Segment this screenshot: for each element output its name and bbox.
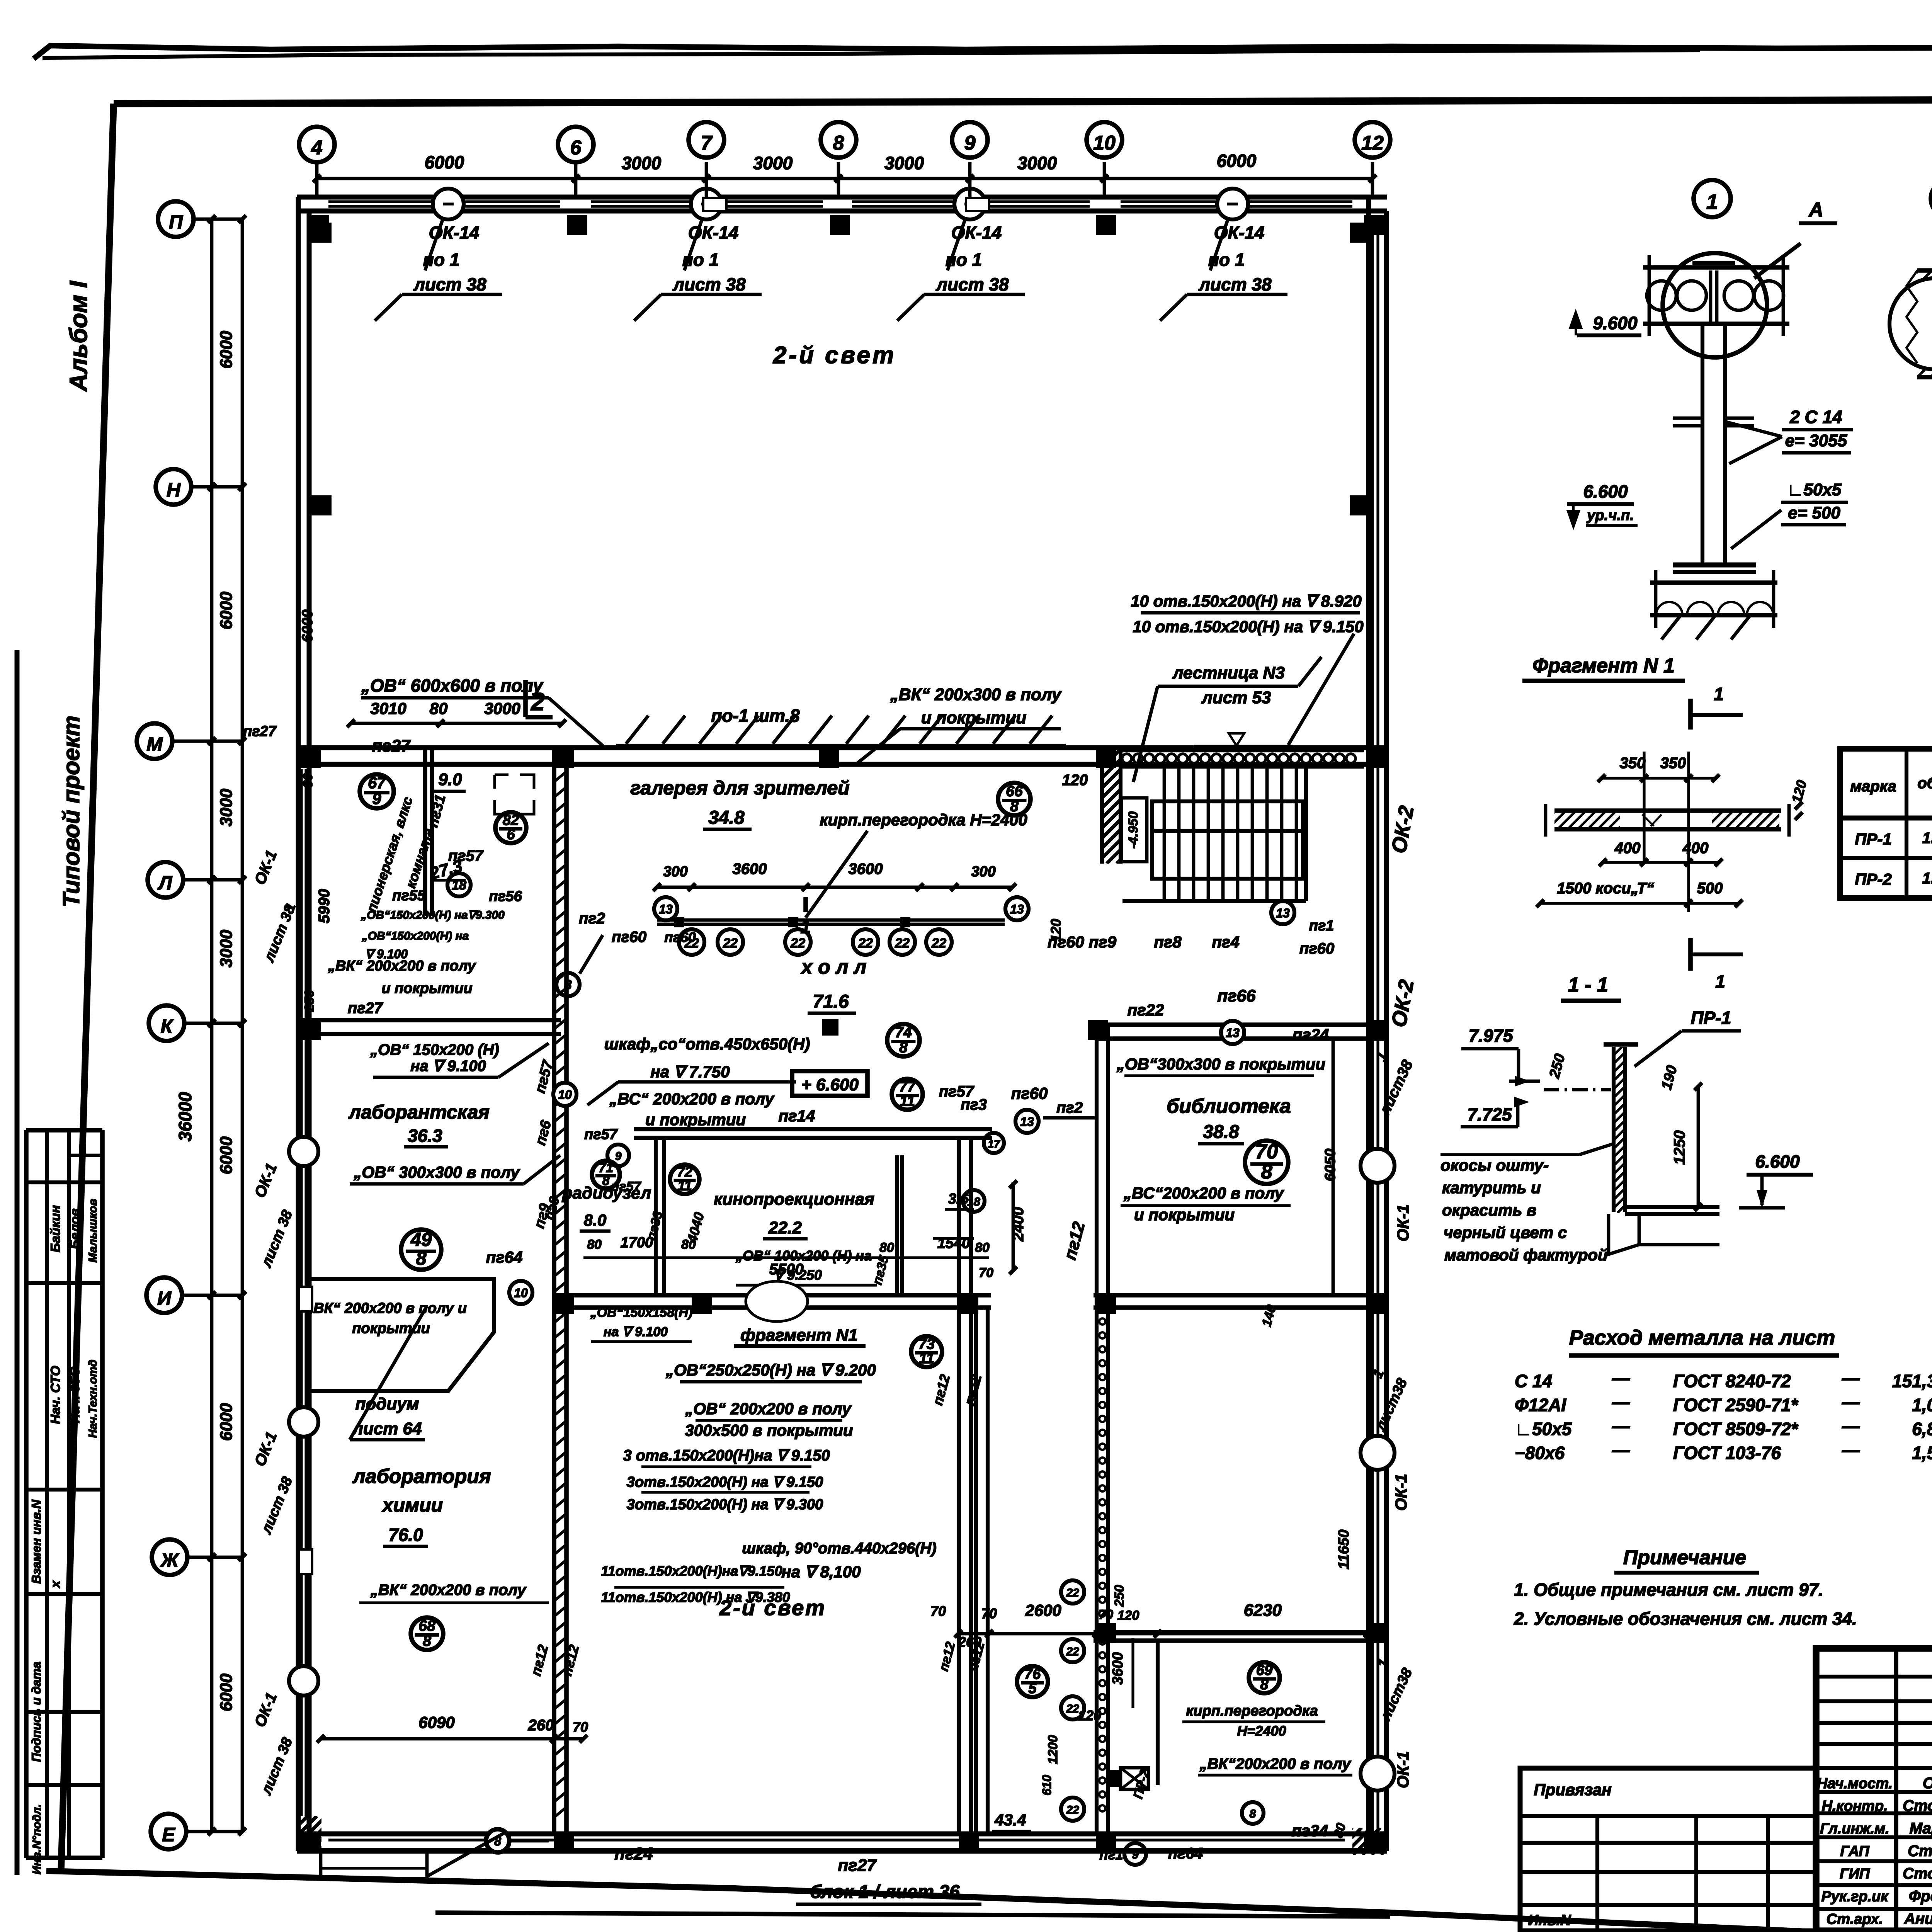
svg-text:3600: 3600 bbox=[733, 861, 767, 878]
svg-text:3.6: 3.6 bbox=[948, 1191, 969, 1207]
svg-text:300: 300 bbox=[971, 864, 995, 880]
svg-text:Нач. СТО: Нач. СТО bbox=[48, 1366, 63, 1424]
svg-text:76: 76 bbox=[1024, 1666, 1041, 1682]
svg-text:22: 22 bbox=[790, 936, 805, 951]
svg-text:„ОВ“ 200х200 в полу: „ОВ“ 200х200 в полу bbox=[685, 1400, 852, 1418]
svg-text:71: 71 bbox=[599, 1161, 613, 1175]
svg-text:пг1: пг1 bbox=[1099, 1847, 1123, 1862]
svg-text:„ОВ“ 600х600 в полу: „ОВ“ 600х600 в полу bbox=[361, 675, 544, 696]
svg-text:обозначение: обозначение bbox=[1917, 775, 1932, 792]
svg-text:Фрагмент N 1: Фрагмент N 1 bbox=[1532, 655, 1675, 677]
svg-text:марка: марка bbox=[1850, 778, 1896, 795]
svg-text:М: М bbox=[146, 733, 163, 755]
svg-text:шкаф„со“отв.450х650(Н): шкаф„со“отв.450х650(Н) bbox=[604, 1035, 810, 1053]
svg-text:22: 22 bbox=[1066, 1702, 1079, 1715]
svg-text:С 14: С 14 bbox=[1515, 1371, 1552, 1391]
svg-text:70: 70 bbox=[1255, 1140, 1278, 1163]
svg-text:9: 9 bbox=[964, 132, 976, 155]
svg-text:пг24: пг24 bbox=[1293, 1026, 1329, 1044]
svg-text:3000: 3000 bbox=[484, 699, 520, 718]
svg-text:Орлов: Орлов bbox=[1923, 1775, 1932, 1792]
svg-text:6090: 6090 bbox=[418, 1713, 454, 1731]
svg-text:22: 22 bbox=[1066, 1587, 1079, 1599]
svg-text:3000: 3000 bbox=[217, 930, 236, 968]
svg-text:—: — bbox=[1842, 1440, 1860, 1460]
svg-text:Маргулец: Маргулец bbox=[1910, 1820, 1932, 1837]
svg-text:6000: 6000 bbox=[217, 1136, 236, 1174]
svg-text:„ОВ“150х158(Н): „ОВ“150х158(Н) bbox=[590, 1305, 693, 1320]
svg-text:—: — bbox=[1842, 1368, 1860, 1388]
svg-text:черный цвет с: черный цвет с bbox=[1444, 1223, 1567, 1242]
svg-text:Нач.мост.: Нач.мост. bbox=[1817, 1776, 1893, 1792]
svg-text:катурить и: катурить и bbox=[1442, 1179, 1541, 1197]
svg-text:400: 400 bbox=[1614, 840, 1641, 857]
svg-text:∟50х5: ∟50х5 bbox=[1515, 1419, 1572, 1439]
svg-text:—: — bbox=[1842, 1416, 1860, 1436]
svg-text:Ф12АI: Ф12АI bbox=[1515, 1395, 1566, 1415]
svg-text:9.0: 9.0 bbox=[438, 770, 462, 789]
svg-text:6000: 6000 bbox=[299, 610, 316, 643]
svg-text:Столярова: Столярова bbox=[1903, 1798, 1932, 1815]
svg-text:х о л л: х о л л bbox=[800, 956, 867, 978]
svg-text:3000: 3000 bbox=[753, 153, 793, 173]
svg-text:кинопроекционная: кинопроекционная bbox=[714, 1190, 874, 1209]
svg-text:К: К bbox=[161, 1015, 174, 1037]
svg-text:Инв.N: Инв.N bbox=[1528, 1912, 1571, 1929]
svg-text:пг60: пг60 bbox=[1299, 940, 1334, 957]
svg-text:350: 350 bbox=[1620, 755, 1646, 772]
svg-text:13: 13 bbox=[1020, 1115, 1034, 1129]
svg-text:22: 22 bbox=[858, 936, 873, 951]
svg-text:Альбом I: Альбом I bbox=[65, 281, 92, 392]
svg-text:2600: 2600 bbox=[1025, 1601, 1061, 1619]
svg-text:пг56: пг56 bbox=[489, 888, 522, 905]
svg-text:Н.контр.: Н.контр. bbox=[1822, 1798, 1888, 1815]
svg-text:5: 5 bbox=[1028, 1680, 1037, 1697]
svg-text:и покрытии: и покрытии bbox=[645, 1111, 746, 1129]
svg-text:6230: 6230 bbox=[1244, 1601, 1282, 1620]
svg-text:36.3: 36.3 bbox=[408, 1126, 442, 1146]
svg-text:66: 66 bbox=[1006, 783, 1023, 799]
svg-text:70: 70 bbox=[573, 1719, 588, 1735]
svg-text:ГОСТ 8509-72*: ГОСТ 8509-72* bbox=[1673, 1419, 1799, 1439]
svg-text:И: И bbox=[157, 1287, 172, 1309]
svg-text:6.600: 6.600 bbox=[1755, 1151, 1800, 1172]
svg-text:лист 53: лист 53 bbox=[1201, 688, 1271, 707]
svg-text:ПР-1: ПР-1 bbox=[1855, 830, 1892, 848]
svg-text:Рук.гр.ик: Рук.гр.ик bbox=[1821, 1889, 1889, 1905]
svg-text:5500: 5500 bbox=[769, 1261, 804, 1278]
svg-text:Степанов: Степанов bbox=[1908, 1843, 1932, 1860]
svg-text:-4.950: -4.950 bbox=[1126, 811, 1141, 849]
svg-text:1: 1 bbox=[1706, 190, 1718, 214]
svg-text:300: 300 bbox=[663, 864, 687, 880]
svg-text:Ж: Ж bbox=[160, 1549, 180, 1571]
svg-text:76.0: 76.0 bbox=[388, 1525, 423, 1545]
svg-text:ПР-2: ПР-2 bbox=[1855, 870, 1892, 888]
svg-text:Л: Л bbox=[158, 872, 173, 894]
svg-text:2: 2 bbox=[531, 688, 545, 716]
svg-text:ГОСТ 8240-72: ГОСТ 8240-72 bbox=[1673, 1371, 1791, 1391]
svg-text:2 С 14: 2 С 14 bbox=[1789, 407, 1842, 427]
svg-text:пг60: пг60 bbox=[664, 929, 696, 945]
svg-text:6000: 6000 bbox=[217, 331, 236, 369]
svg-text:ГОСТ 103-76: ГОСТ 103-76 bbox=[1673, 1443, 1781, 1463]
svg-text:38.8: 38.8 bbox=[1203, 1122, 1239, 1142]
svg-text:1,0кг: 1,0кг bbox=[1912, 1395, 1932, 1415]
svg-text:лаборантская: лаборантская bbox=[348, 1101, 490, 1123]
svg-text:окосы ошту-: окосы ошту- bbox=[1440, 1156, 1549, 1174]
svg-text:13: 13 bbox=[1276, 906, 1290, 920]
svg-text:3000: 3000 bbox=[622, 153, 662, 173]
svg-text:фрагмент N1: фрагмент N1 bbox=[740, 1326, 858, 1345]
svg-text:5990: 5990 bbox=[316, 889, 333, 923]
svg-text:П: П bbox=[169, 211, 183, 233]
svg-text:6000: 6000 bbox=[217, 592, 236, 629]
svg-text:„ВК“ 200х200 в полу: „ВК“ 200х200 в полу bbox=[370, 1582, 527, 1599]
svg-text:10 отв.150х200(Н) на ∇ 8.920: 10 отв.150х200(Н) на ∇ 8.920 bbox=[1131, 592, 1361, 610]
svg-text:−80х6: −80х6 bbox=[1515, 1443, 1565, 1463]
svg-text:11отв.150х200(Н)на∇9.150: 11отв.150х200(Н)на∇9.150 bbox=[601, 1563, 782, 1579]
svg-text:Подпись и дата: Подпись и дата bbox=[29, 1662, 43, 1762]
svg-text:пг2: пг2 bbox=[579, 910, 605, 927]
svg-text:7.975: 7.975 bbox=[1468, 1026, 1514, 1046]
svg-text:610: 610 bbox=[1040, 1775, 1054, 1796]
svg-text:„ВК“ 200х200 в полу: „ВК“ 200х200 в полу bbox=[328, 958, 476, 974]
svg-text:1: 1 bbox=[1714, 684, 1724, 704]
svg-text:по-1 шт.8: по-1 шт.8 bbox=[711, 706, 800, 726]
svg-text:1: 1 bbox=[801, 917, 811, 937]
svg-text:10: 10 bbox=[558, 1088, 572, 1102]
svg-text:Привязан: Привязан bbox=[1534, 1781, 1611, 1799]
svg-text:36000: 36000 bbox=[175, 1092, 195, 1141]
svg-text:пг2: пг2 bbox=[1056, 1099, 1083, 1116]
svg-text:18: 18 bbox=[967, 1196, 980, 1208]
svg-text:ур.ч.п.: ур.ч.п. bbox=[1586, 507, 1634, 524]
svg-text:Белов: Белов bbox=[68, 1208, 82, 1249]
svg-text:12: 12 bbox=[1361, 132, 1384, 155]
svg-text:7.725: 7.725 bbox=[1467, 1104, 1512, 1124]
svg-text:библиотека: библиотека bbox=[1167, 1095, 1291, 1117]
svg-text:11650: 11650 bbox=[1336, 1530, 1352, 1570]
svg-text:матовой фактурой: матовой фактурой bbox=[1444, 1246, 1608, 1264]
svg-text:9: 9 bbox=[1132, 1849, 1139, 1861]
svg-text:6: 6 bbox=[570, 137, 582, 159]
svg-text:3отв.150х200(Н) на ∇ 9.300: 3отв.150х200(Н) на ∇ 9.300 bbox=[627, 1497, 823, 1513]
svg-text:6050: 6050 bbox=[1322, 1149, 1338, 1182]
svg-text:„ОВ“150х200(Н) на: „ОВ“150х200(Н) на bbox=[362, 930, 469, 942]
svg-text:80: 80 bbox=[879, 1240, 894, 1255]
svg-text:1.138-10 в.1: 1.138-10 в.1 bbox=[1922, 870, 1932, 887]
svg-text:Нач. 9ТО: Нач. 9ТО bbox=[68, 1367, 82, 1423]
svg-text:17: 17 bbox=[988, 1138, 1000, 1150]
svg-text:пг27: пг27 bbox=[838, 1856, 877, 1875]
svg-text:80: 80 bbox=[301, 773, 315, 788]
svg-text:Столярова: Столярова bbox=[1903, 1865, 1932, 1882]
svg-text:6.600: 6.600 bbox=[1583, 481, 1628, 502]
svg-text:34.8: 34.8 bbox=[708, 808, 745, 828]
svg-text:x: x bbox=[48, 1580, 63, 1588]
svg-text:шкаф, 90°отв.440х296(Н): шкаф, 90°отв.440х296(Н) bbox=[742, 1540, 936, 1557]
svg-text:8: 8 bbox=[1250, 1808, 1256, 1820]
svg-text:ГИП: ГИП bbox=[1840, 1866, 1870, 1882]
svg-text:лестница N3: лестница N3 bbox=[1172, 663, 1285, 682]
svg-text:3000: 3000 bbox=[1017, 153, 1057, 173]
svg-text:и покрытии: и покрытии bbox=[381, 980, 472, 997]
svg-text:„ОВ“150х200(Н) на∇9.300: „ОВ“150х200(Н) на∇9.300 bbox=[361, 909, 505, 922]
svg-text:73: 73 bbox=[918, 1336, 935, 1352]
svg-text:3000: 3000 bbox=[217, 789, 236, 827]
svg-text:400: 400 bbox=[1682, 840, 1709, 857]
svg-text:—: — bbox=[1612, 1416, 1630, 1436]
svg-text:пг4: пг4 bbox=[1212, 933, 1239, 951]
svg-text:6000: 6000 bbox=[425, 152, 464, 172]
svg-text:9.600: 9.600 bbox=[1593, 313, 1638, 333]
svg-text:1200: 1200 bbox=[1046, 1735, 1060, 1764]
svg-text:300х500 в покрытии: 300х500 в покрытии bbox=[685, 1421, 853, 1439]
svg-text:1700: 1700 bbox=[621, 1235, 653, 1251]
svg-text:74: 74 bbox=[895, 1024, 912, 1041]
svg-text:43.4: 43.4 bbox=[994, 1811, 1026, 1829]
svg-text:ОК-1: ОК-1 bbox=[1392, 1474, 1410, 1511]
svg-text:260: 260 bbox=[958, 1634, 981, 1650]
svg-text:49: 49 bbox=[410, 1230, 432, 1250]
svg-text:70: 70 bbox=[930, 1603, 946, 1619]
svg-text:е= 500: е= 500 bbox=[1788, 503, 1840, 522]
svg-text:„ВК“200х200 в полу: „ВК“200х200 в полу bbox=[1199, 1755, 1351, 1772]
svg-text:пг3: пг3 bbox=[961, 1096, 987, 1113]
svg-text:Расход металла на лист: Расход металла на лист bbox=[1569, 1326, 1835, 1349]
svg-text:9: 9 bbox=[615, 1150, 622, 1163]
svg-text:22: 22 bbox=[895, 936, 910, 951]
svg-text:8: 8 bbox=[833, 132, 844, 155]
svg-text:пг24: пг24 bbox=[614, 1844, 653, 1863]
svg-text:3000: 3000 bbox=[884, 153, 924, 173]
svg-text:120: 120 bbox=[1117, 1608, 1139, 1623]
svg-text:1500 коси„Т“: 1500 коси„Т“ bbox=[1557, 880, 1654, 897]
svg-text:22.2: 22.2 bbox=[768, 1218, 802, 1237]
svg-text:6000: 6000 bbox=[1217, 151, 1257, 171]
svg-text:и покрытии: и покрытии bbox=[1134, 1206, 1235, 1224]
svg-text:8: 8 bbox=[1261, 1160, 1272, 1183]
svg-text:250: 250 bbox=[1112, 1585, 1127, 1607]
svg-text:Типовой проект: Типовой проект bbox=[58, 716, 84, 907]
svg-text:4: 4 bbox=[311, 137, 323, 159]
svg-text:11: 11 bbox=[677, 1178, 692, 1194]
svg-text:Е: Е bbox=[162, 1824, 175, 1845]
svg-text:8.0: 8.0 bbox=[584, 1211, 606, 1229]
svg-text:блок 1 / лист 36: блок 1 / лист 36 bbox=[810, 1882, 960, 1902]
svg-text:пг64: пг64 bbox=[486, 1248, 523, 1266]
svg-text:8: 8 bbox=[565, 978, 572, 992]
svg-text:пг60: пг60 bbox=[612, 929, 646, 946]
svg-text:6,8кг: 6,8кг bbox=[1912, 1419, 1932, 1439]
svg-text:260: 260 bbox=[528, 1717, 554, 1734]
svg-text:2-й свет: 2-й свет bbox=[773, 342, 896, 369]
svg-text:∟50х5: ∟50х5 bbox=[1787, 480, 1842, 499]
svg-text:11: 11 bbox=[919, 1350, 934, 1367]
svg-text:пг8: пг8 bbox=[1154, 933, 1182, 951]
svg-text:8: 8 bbox=[899, 1039, 908, 1056]
svg-text:пг27: пг27 bbox=[243, 723, 277, 740]
svg-text:9: 9 bbox=[372, 790, 381, 808]
svg-text:ГАП: ГАП bbox=[1840, 1844, 1869, 1860]
svg-text:ГОСТ 2590-71*: ГОСТ 2590-71* bbox=[1673, 1395, 1799, 1415]
svg-text:22: 22 bbox=[931, 936, 946, 951]
svg-text:Н=2400: Н=2400 bbox=[1237, 1723, 1286, 1739]
svg-text:80: 80 bbox=[430, 699, 448, 718]
svg-text:77: 77 bbox=[899, 1079, 916, 1095]
svg-text:151,3кг: 151,3кг bbox=[1892, 1371, 1932, 1391]
svg-text:„ВС“200х200 в полу: „ВС“200х200 в полу bbox=[1123, 1184, 1285, 1202]
svg-text:пг22: пг22 bbox=[1128, 1001, 1164, 1019]
svg-text:пг57: пг57 bbox=[584, 1126, 618, 1143]
svg-text:пг66: пг66 bbox=[1217, 986, 1256, 1005]
svg-text:лист 38: лист 38 bbox=[935, 274, 1009, 294]
svg-text:пг27: пг27 bbox=[372, 736, 411, 755]
svg-text:„ВК“ 200х200 в полу и: „ВК“ 200х200 в полу и bbox=[306, 1300, 467, 1316]
svg-text:покрытии: покрытии bbox=[352, 1320, 430, 1337]
svg-text:на ∇ 7.750: на ∇ 7.750 bbox=[650, 1063, 730, 1081]
svg-text:пг55: пг55 bbox=[392, 888, 426, 904]
svg-text:68: 68 bbox=[418, 1617, 435, 1634]
svg-text:2. Условные обозначения см.: 2. Условные обозначения см. лист 34. bbox=[1514, 1609, 1857, 1629]
svg-text:—: — bbox=[1612, 1440, 1630, 1460]
svg-text:6: 6 bbox=[507, 827, 515, 843]
svg-text:8: 8 bbox=[1010, 798, 1019, 815]
svg-text:кирп.перегородка Н=2400: кирп.перегородка Н=2400 bbox=[820, 811, 1027, 829]
svg-text:Байкин: Байкин bbox=[48, 1205, 63, 1252]
svg-text:6000: 6000 bbox=[217, 1673, 236, 1711]
svg-text:—: — bbox=[1842, 1392, 1860, 1412]
svg-text:80: 80 bbox=[975, 1240, 990, 1255]
svg-text:Малышков: Малышков bbox=[87, 1199, 99, 1262]
svg-text:67: 67 bbox=[368, 774, 386, 792]
svg-text:82: 82 bbox=[503, 812, 519, 828]
svg-text:8: 8 bbox=[423, 1633, 431, 1650]
svg-text:ПР-1: ПР-1 bbox=[1691, 1008, 1731, 1028]
svg-text:13: 13 bbox=[1226, 1026, 1240, 1040]
svg-text:1.138-10 в.1: 1.138-10 в.1 bbox=[1922, 830, 1932, 847]
svg-text:ОК-1: ОК-1 bbox=[1394, 1204, 1412, 1242]
svg-text:70: 70 bbox=[979, 1265, 993, 1280]
svg-text:Нач.Техн.отд: Нач.Техн.отд bbox=[87, 1360, 99, 1438]
svg-text:22: 22 bbox=[1066, 1645, 1079, 1658]
svg-text:ОК-1: ОК-1 bbox=[1394, 1751, 1412, 1788]
svg-text:на ∇ 9.100: на ∇ 9.100 bbox=[604, 1325, 668, 1339]
svg-text:120: 120 bbox=[1062, 772, 1088, 789]
svg-text:А: А bbox=[1808, 199, 1823, 221]
svg-text:Н: Н bbox=[167, 479, 181, 501]
svg-text:8: 8 bbox=[602, 1173, 610, 1188]
svg-text:1 - 1: 1 - 1 bbox=[1568, 974, 1608, 996]
svg-text:на ∇ 9.100: на ∇ 9.100 bbox=[410, 1058, 486, 1075]
svg-text:кирп.перегородка: кирп.перегородка bbox=[1186, 1703, 1318, 1719]
svg-text:„ОВ“ 150х200 (Н): „ОВ“ 150х200 (Н) bbox=[370, 1041, 499, 1058]
svg-text:8: 8 bbox=[416, 1248, 427, 1269]
svg-text:8: 8 bbox=[1260, 1677, 1269, 1693]
svg-text:10: 10 bbox=[1093, 132, 1116, 155]
svg-text:3600: 3600 bbox=[1110, 1652, 1126, 1685]
svg-text:10 отв.150х200(Н) на ∇ 9.150: 10 отв.150х200(Н) на ∇ 9.150 bbox=[1133, 617, 1363, 636]
svg-text:1: 1 bbox=[1715, 971, 1725, 992]
svg-text:пг64: пг64 bbox=[1168, 1845, 1203, 1862]
svg-text:13: 13 bbox=[659, 902, 673, 916]
svg-text:22: 22 bbox=[723, 936, 738, 951]
svg-text:Примечание: Примечание bbox=[1623, 1546, 1746, 1569]
svg-text:Фроженко: Фроженко bbox=[1909, 1888, 1932, 1905]
svg-text:—: — bbox=[1612, 1368, 1630, 1388]
svg-text:Взамен инв.N: Взамен инв.N bbox=[29, 1500, 43, 1584]
svg-text:Анисимова: Анисимова bbox=[1904, 1910, 1932, 1927]
svg-text:70: 70 bbox=[981, 1605, 997, 1621]
svg-text:3600: 3600 bbox=[849, 861, 883, 878]
svg-text:22: 22 bbox=[1066, 1804, 1079, 1816]
svg-text:1. Общие примечания см. лис: 1. Общие примечания см. лист 97. bbox=[1514, 1580, 1823, 1600]
svg-text:+ 6.600: + 6.600 bbox=[801, 1075, 859, 1094]
svg-text:пг1: пг1 bbox=[1309, 918, 1334, 934]
svg-text:лаборатория: лаборатория bbox=[352, 1465, 491, 1488]
svg-text:120: 120 bbox=[1078, 1708, 1101, 1723]
svg-text:13: 13 bbox=[1010, 902, 1024, 916]
svg-text:пг14: пг14 bbox=[779, 1107, 815, 1125]
svg-text:6000: 6000 bbox=[217, 1403, 236, 1441]
svg-text:на ∇ 8,100: на ∇ 8,100 bbox=[781, 1563, 861, 1581]
svg-text:Ст.арх.: Ст.арх. bbox=[1827, 1911, 1883, 1927]
svg-text:химии: химии bbox=[381, 1494, 443, 1516]
svg-text:„ОВ“250х250(Н) на ∇ 9.200: „ОВ“250х250(Н) на ∇ 9.200 bbox=[665, 1361, 876, 1379]
svg-text:„ВС“ 200х200 в полу: „ВС“ 200х200 в полу bbox=[609, 1090, 775, 1108]
svg-text:Инв.N°подл.: Инв.N°подл. bbox=[31, 1804, 43, 1874]
svg-text:3отв.150х200(Н) на ∇ 9.150: 3отв.150х200(Н) на ∇ 9.150 bbox=[627, 1474, 823, 1490]
svg-text:„ОВ“ 100х200 (Н) на: „ОВ“ 100х200 (Н) на bbox=[735, 1248, 872, 1264]
svg-text:лист 38: лист 38 bbox=[672, 274, 746, 294]
svg-text:3 отв.150х200(Н)на ∇ 9.150: 3 отв.150х200(Н)на ∇ 9.150 bbox=[623, 1447, 830, 1464]
svg-text:„ОВ“300х300 в покрытии: „ОВ“300х300 в покрытии bbox=[1116, 1055, 1325, 1073]
svg-text:350: 350 bbox=[1660, 755, 1686, 772]
svg-text:лист 38: лист 38 bbox=[1198, 274, 1272, 294]
svg-text:1250: 1250 bbox=[1671, 1131, 1688, 1165]
svg-text:3010: 3010 bbox=[370, 699, 406, 718]
svg-text:лист 64: лист 64 bbox=[352, 1419, 422, 1438]
svg-text:80: 80 bbox=[587, 1237, 602, 1252]
svg-text:69: 69 bbox=[1256, 1662, 1272, 1679]
svg-text:лист 38: лист 38 bbox=[413, 274, 486, 294]
svg-text:пг34: пг34 bbox=[1292, 1821, 1328, 1840]
svg-text:80: 80 bbox=[681, 1237, 696, 1252]
svg-text:е= 3055: е= 3055 bbox=[1785, 431, 1847, 450]
svg-text:500: 500 bbox=[1697, 880, 1723, 897]
svg-text:и покрытии: и покрытии bbox=[921, 708, 1027, 727]
svg-text:галерея для зрителей: галерея для зрителей bbox=[630, 777, 849, 799]
svg-text:—: — bbox=[1612, 1392, 1630, 1412]
svg-text:Гл.инж.м.: Гл.инж.м. bbox=[1820, 1821, 1889, 1837]
svg-text:2-й свет: 2-й свет bbox=[719, 1595, 826, 1620]
svg-text:1,5кг: 1,5кг bbox=[1912, 1443, 1932, 1463]
svg-text:„ОВ“ 300х300 в полу: „ОВ“ 300х300 в полу bbox=[353, 1163, 520, 1181]
svg-text:пг60 пг9: пг60 пг9 bbox=[1048, 933, 1117, 951]
svg-text:„ВК“ 200х300 в полу: „ВК“ 200х300 в полу bbox=[890, 685, 1062, 704]
svg-text:10: 10 bbox=[514, 1286, 528, 1300]
svg-text:71.6: 71.6 bbox=[813, 992, 849, 1012]
svg-text:250: 250 bbox=[302, 990, 317, 1012]
svg-text:7: 7 bbox=[701, 132, 713, 155]
svg-text:11: 11 bbox=[900, 1093, 915, 1109]
svg-text:пг60: пг60 bbox=[1011, 1084, 1048, 1102]
svg-text:70: 70 bbox=[1099, 1607, 1113, 1622]
svg-text:пг27: пг27 bbox=[348, 1000, 383, 1017]
svg-text:окрасить в: окрасить в bbox=[1442, 1201, 1536, 1219]
